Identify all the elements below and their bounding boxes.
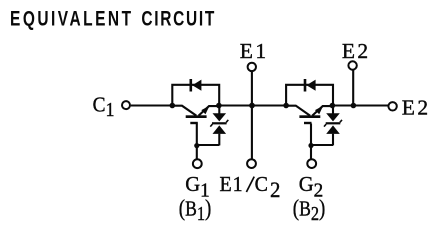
- zener Z2 bar ticks: [324, 120, 342, 127]
- svg-text:(B1): (B1): [179, 195, 212, 225]
- node E1 left junction: [216, 103, 222, 109]
- wire zener bottom Q2: [332, 134, 334, 146]
- zener Z1 bottom triangle: [213, 125, 227, 133]
- node E2 top junction: [351, 103, 357, 109]
- wire gate-zener Q1: [197, 144, 220, 146]
- svg-text:C1: C1: [93, 94, 115, 122]
- zener Z1 top triangle: [213, 113, 227, 121]
- wire C1 to left cell: [131, 104, 173, 106]
- transistor Q1 emitter arrow: [201, 106, 209, 115]
- svg-text:EQUIVALENT: EQUIVALENT: [10, 6, 134, 30]
- terminal E1/C2: [247, 159, 256, 168]
- wire gate-zener Q2: [311, 144, 333, 146]
- node G1 junction: [194, 143, 199, 148]
- wire collector Q1: [172, 106, 196, 116]
- terminal E1 top: [248, 63, 256, 71]
- svg-text:E2: E2: [402, 96, 431, 120]
- wire left cell to right cell: [219, 104, 286, 106]
- title EQUIVALENT CIRCUIT: [10, 6, 216, 30]
- transistor Q2 channel bar: [299, 115, 320, 118]
- svg-text:C2: C2: [255, 173, 281, 202]
- svg-text:CIRCUIT: CIRCUIT: [141, 6, 216, 30]
- wire E1 vertical: [251, 72, 253, 159]
- diode D1 triangle: [192, 80, 201, 91]
- svg-text:E1: E1: [240, 39, 269, 63]
- wire E2 top vertical: [352, 70, 354, 105]
- transistor Q2 emitter arrow: [315, 106, 323, 115]
- wire zener bottom Q1: [218, 134, 220, 146]
- node G2 junction: [308, 143, 313, 148]
- wire emitter Q1: [199, 106, 219, 116]
- wire gate Q2 vertical: [310, 124, 312, 159]
- node C2 junction: [283, 103, 289, 109]
- diode D1 cathode bar: [190, 79, 193, 92]
- wire emitter Q2: [312, 106, 332, 116]
- transistor Q2 gate bar: [304, 122, 312, 124]
- zener Z1 bar: [212, 122, 227, 124]
- label E1/C2 slash: [246, 177, 254, 192]
- wire collector Q2: [286, 106, 310, 116]
- diode D2 cathode bar: [304, 79, 307, 92]
- zener Z1 bar ticks: [210, 120, 228, 127]
- terminal E2 top: [348, 61, 356, 69]
- svg-text:E1: E1: [220, 173, 244, 196]
- wire gate Q1 vertical: [196, 124, 198, 159]
- wire top rail Q2: [286, 85, 333, 106]
- terminal E2 right: [388, 102, 396, 110]
- zener Z2 bar: [326, 122, 341, 124]
- node C1 junction: [170, 103, 176, 109]
- zener Z2 bottom triangle: [326, 125, 340, 133]
- diode D2 triangle: [307, 80, 316, 91]
- wire right cell to E2 terminal: [332, 104, 388, 106]
- terminal G2: [307, 159, 316, 168]
- zener Z2 top triangle: [326, 113, 340, 121]
- wire zener top Q1: [218, 106, 220, 114]
- svg-text:(B2): (B2): [293, 195, 326, 225]
- wire zener top Q2: [332, 106, 334, 114]
- transistor Q1 gate bar: [190, 122, 198, 124]
- node E1 cross junction: [249, 103, 255, 109]
- svg-text:E2: E2: [342, 39, 371, 63]
- terminal C1: [122, 101, 130, 109]
- node E2 left junction: [330, 103, 336, 109]
- wire top rail Q1: [172, 85, 219, 106]
- terminal G1: [193, 159, 202, 168]
- transistor Q1 channel bar: [186, 115, 207, 118]
